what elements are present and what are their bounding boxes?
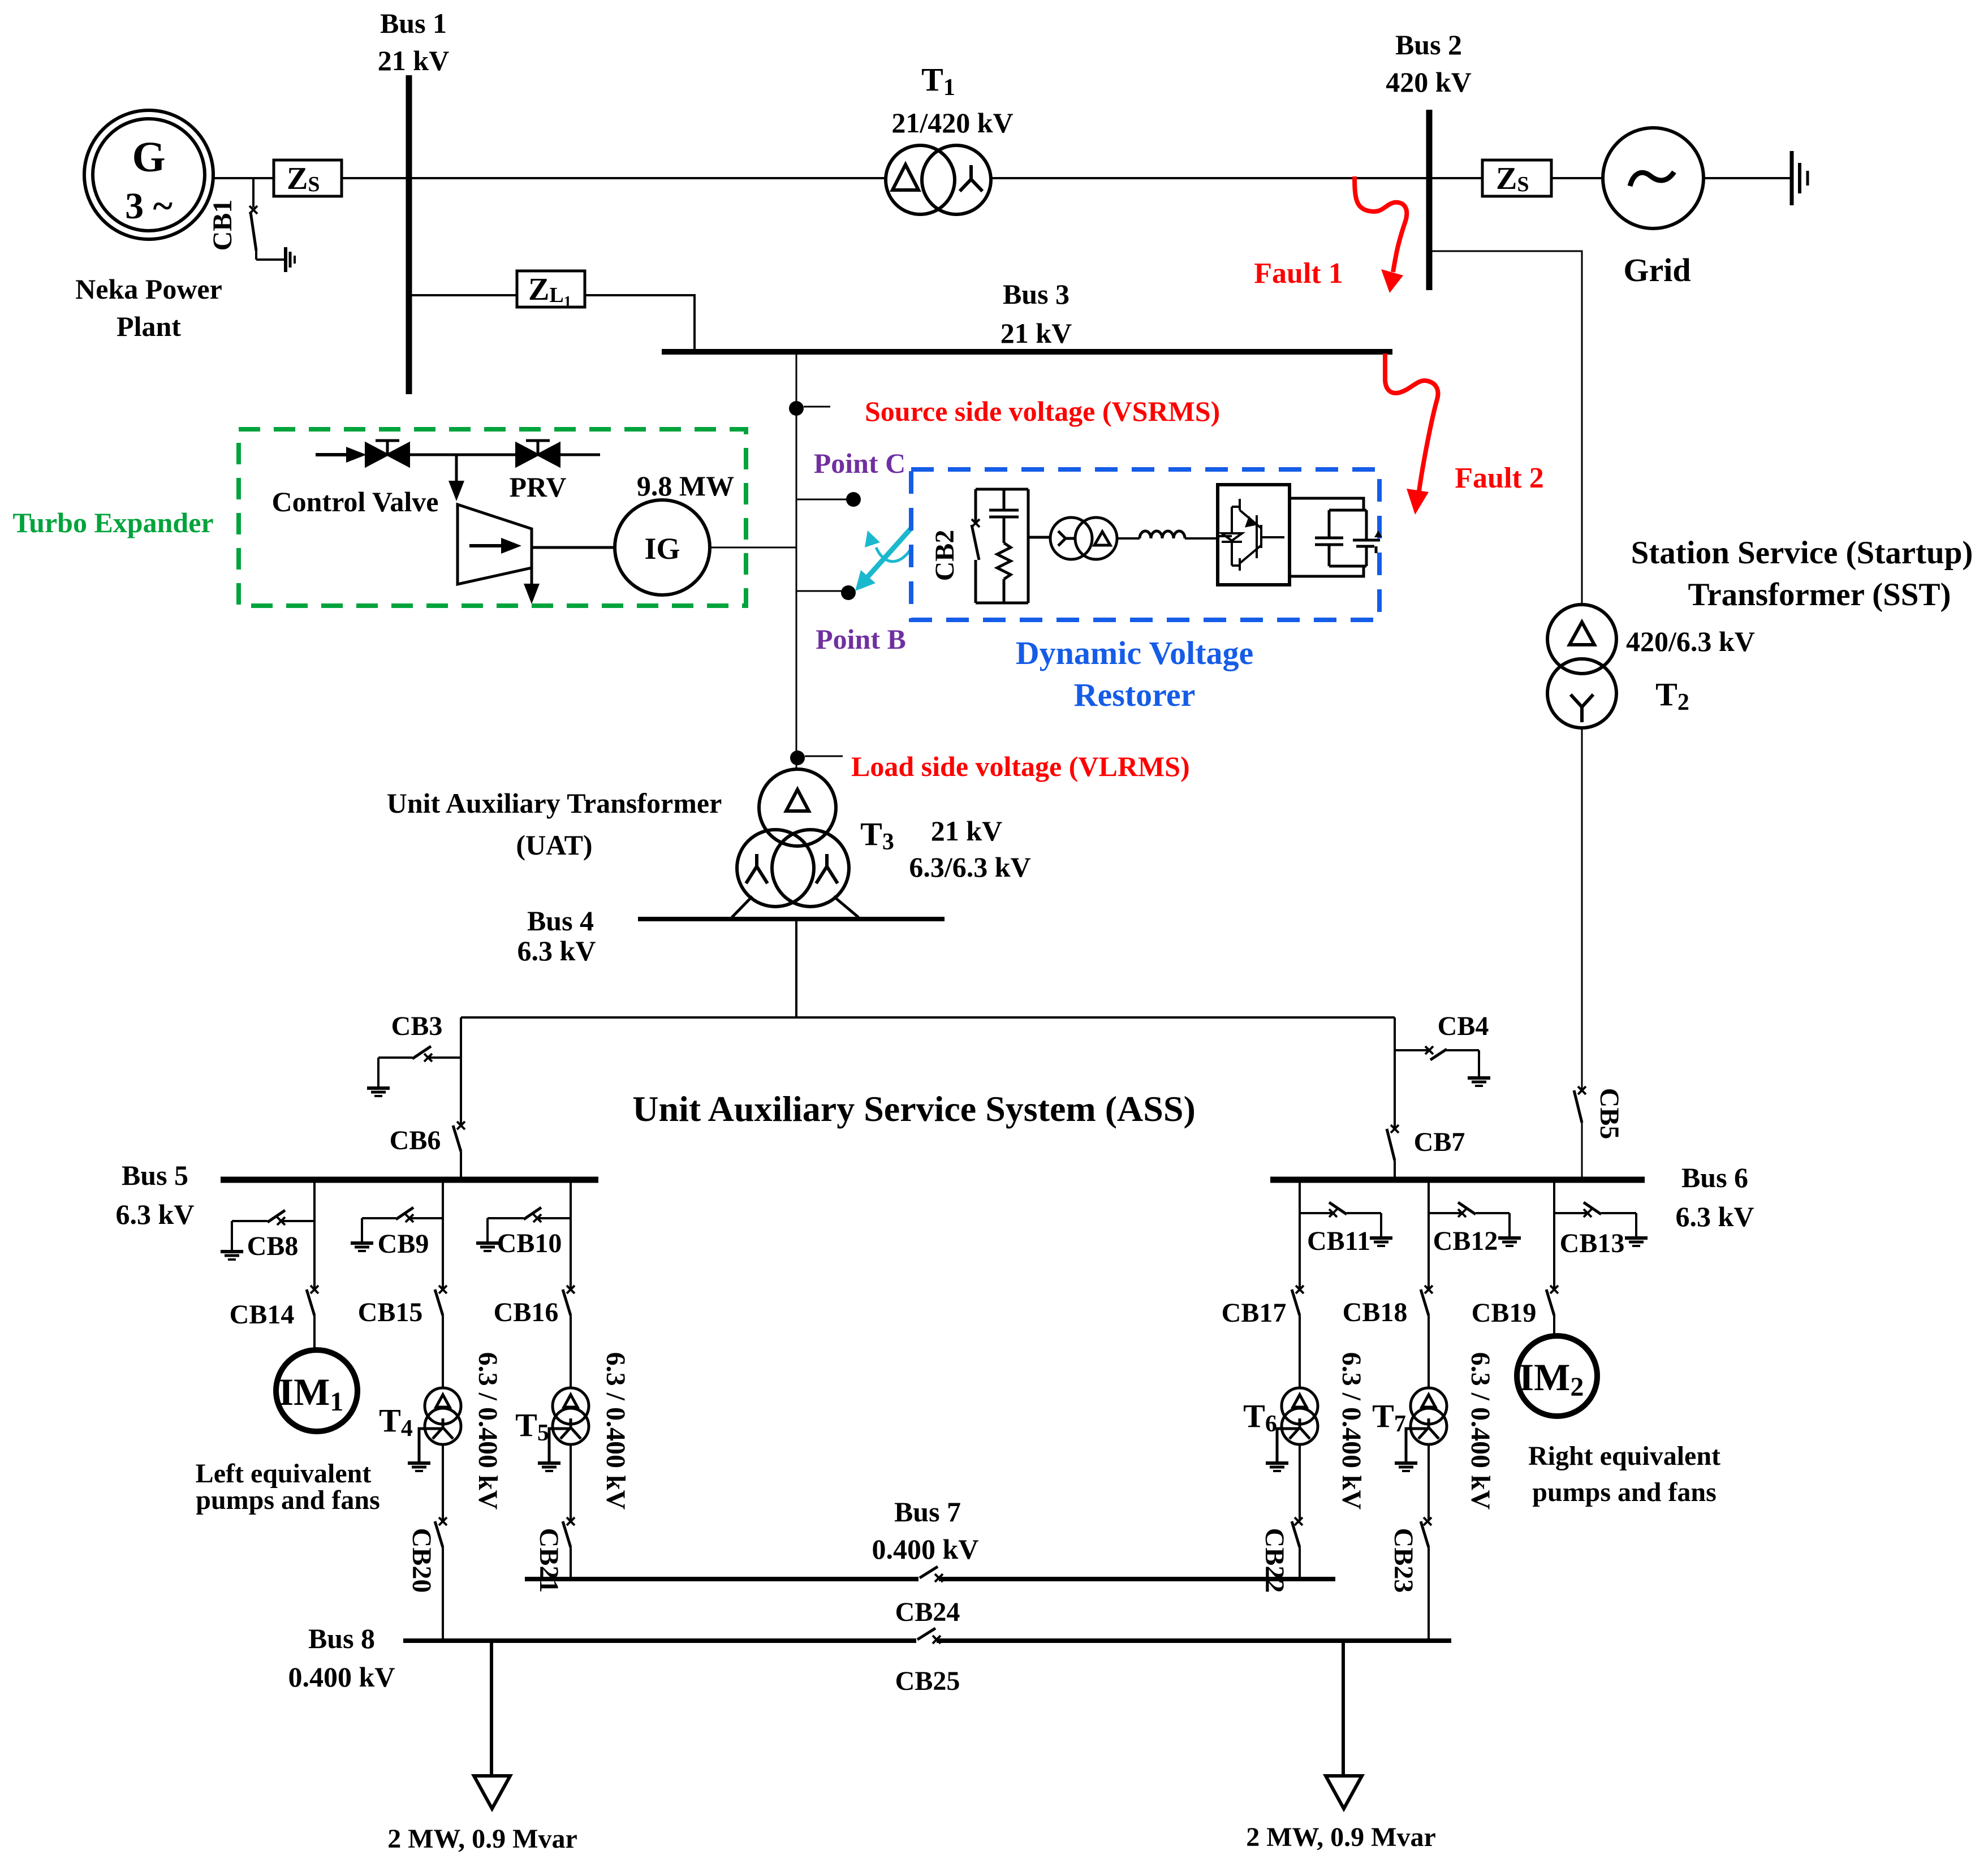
bus 2 (420 kV) (1426, 110, 1433, 290)
svg-text:G: G (132, 133, 165, 181)
bus 8 right part (937, 1638, 1451, 1643)
ground (CB8) (221, 1221, 243, 1260)
transformer T2 (SST) (1547, 605, 1616, 728)
earthing switch CB9 (362, 1207, 443, 1222)
svg-text:21 kV: 21 kV (378, 45, 449, 76)
svg-text:Bus 8: Bus 8 (308, 1623, 375, 1654)
breaker CB7 (1387, 1125, 1399, 1161)
induction motor IM2 (1517, 1336, 1597, 1416)
svg-text:Fault 2: Fault 2 (1455, 462, 1543, 494)
svg-text:6.3 kV: 6.3 kV (116, 1198, 195, 1230)
breaker CB14 (307, 1286, 318, 1315)
inductor (1140, 531, 1185, 538)
svg-text:CB24: CB24 (895, 1597, 960, 1627)
inflow arrow (316, 447, 366, 463)
bus 8 (0.400 kV) left part (403, 1638, 916, 1643)
ground (CB13) (1625, 1213, 1648, 1246)
svg-text:0.400 kV: 0.400 kV (872, 1533, 979, 1565)
DVR injection transformer (1050, 517, 1117, 559)
wire Zs to Bus1 to T1 (342, 177, 886, 179)
svg-text:0.400 kV: 0.400 kV (288, 1661, 395, 1693)
ground (T6 neutral) (1266, 1429, 1300, 1471)
svg-text:Load side voltage (VLRMS): Load side voltage (VLRMS) (851, 750, 1190, 782)
wire T2 down to CB5 (1581, 728, 1583, 1089)
shaft wire (532, 546, 615, 549)
ground (CB11) (1370, 1213, 1392, 1246)
wire grid to ground (1704, 177, 1792, 179)
svg-text:Plant: Plant (117, 310, 181, 342)
svg-text:CB23: CB23 (1388, 1528, 1418, 1593)
ground (CB12) (1498, 1213, 1521, 1246)
DC link wiring (1290, 498, 1364, 510)
svg-text:Bus 7: Bus 7 (894, 1496, 961, 1528)
transformer T5 (553, 1388, 589, 1444)
breaker CB15 (435, 1286, 447, 1315)
svg-text:420 kV: 420 kV (1386, 66, 1471, 98)
svg-text:CB25: CB25 (895, 1666, 960, 1696)
transformer T7 (1411, 1388, 1447, 1444)
turbine flow arrow (469, 544, 506, 547)
svg-text:CB2: CB2 (930, 530, 960, 581)
svg-text:Neka Power: Neka Power (75, 273, 222, 305)
svg-text:CB7: CB7 (1414, 1127, 1465, 1157)
transformer T4 (425, 1388, 461, 1444)
ground (CB1) (286, 247, 295, 272)
svg-text:CB22: CB22 (1260, 1528, 1290, 1593)
wire down to CB7 (1394, 1017, 1396, 1128)
svg-text:pumps and fans: pumps and fans (1532, 1477, 1717, 1507)
ground (grid) (1792, 151, 1808, 205)
svg-text:21 kV: 21 kV (931, 815, 1002, 847)
node point C (796, 499, 847, 501)
breaker CB16 (563, 1286, 575, 1315)
DVR blue dashed box (911, 469, 1379, 620)
wire down to CB6 (460, 1017, 462, 1124)
svg-text:CB11: CB11 (1307, 1226, 1370, 1256)
wire bus4 down (795, 921, 797, 1017)
wire inductor to converter (1185, 537, 1218, 540)
earthing switch CB4 (1395, 1046, 1479, 1060)
svg-text:Fault 1: Fault 1 (1254, 257, 1343, 290)
bus 5 (6.3 kV) (221, 1177, 598, 1183)
wire bus2 to T2 (1432, 251, 1582, 605)
transformer T3 (UAT) (737, 769, 849, 907)
earthing switch CB8 (232, 1210, 314, 1225)
svg-text:3 ~: 3 ~ (125, 186, 173, 227)
earthing switch CB10 (488, 1207, 571, 1222)
svg-text:420/6.3 kV: 420/6.3 kV (1626, 626, 1755, 657)
ground (T5 neutral) (538, 1429, 571, 1471)
wire ZL1 to bus 3 (585, 295, 695, 351)
bus 3 (21 kV) (662, 349, 1392, 355)
IGBT converter box (1218, 485, 1290, 585)
turbo expander green dashed box (239, 429, 746, 606)
DVR shunt branch (CB2, capacitor, resistor) (972, 489, 1050, 603)
ground (CB9) (351, 1218, 373, 1251)
wire column T6 (1299, 1180, 1301, 1288)
svg-text:Bus 5: Bus 5 (122, 1159, 188, 1191)
breaker CB5 (1574, 1086, 1586, 1123)
breaker CB1 (249, 178, 284, 260)
svg-text:CB16: CB16 (494, 1297, 559, 1327)
svg-text:21/420 kV: 21/420 kV (891, 107, 1013, 139)
svg-text:21 kV: 21 kV (1001, 317, 1072, 349)
svg-text:CB3: CB3 (391, 1011, 443, 1041)
ground (CB3) (367, 1058, 390, 1096)
svg-text:6.3 kV: 6.3 kV (518, 935, 596, 967)
svg-text:CB13: CB13 (1560, 1228, 1625, 1258)
svg-text:CB18: CB18 (1343, 1297, 1408, 1327)
breaker CB6 (453, 1122, 465, 1151)
svg-text:Unit Auxiliary Service System: Unit Auxiliary Service System (ASS) (632, 1089, 1196, 1129)
wire column IM1 (313, 1180, 316, 1288)
wire T6 down (1299, 1444, 1301, 1520)
svg-text:Point C: Point C (814, 447, 906, 479)
bus 4 (6.3 kV) (638, 917, 945, 921)
bus 7 (0.400 kV) left part (525, 1577, 918, 1581)
cyan transfer arrow (855, 528, 911, 591)
earthing switch CB3 (378, 1046, 461, 1062)
load left (2 MW, 0.9 Mvar) (474, 1643, 510, 1809)
svg-text:PRV: PRV (509, 471, 566, 503)
svg-text:Station Service (Startup): Station Service (Startup) (1631, 535, 1973, 571)
breaker CB25 (917, 1628, 941, 1644)
svg-text:CB12: CB12 (1433, 1226, 1498, 1256)
svg-text:CB20: CB20 (407, 1528, 437, 1593)
svg-text:Source side voltage (VSRMS): Source side voltage (VSRMS) (865, 395, 1220, 427)
svg-text:CB1: CB1 (208, 200, 238, 251)
svg-text:Dynamic Voltage: Dynamic Voltage (1016, 635, 1254, 671)
bus 6 (6.3 kV) (1270, 1177, 1645, 1183)
svg-text:Right equivalent: Right equivalent (1528, 1441, 1720, 1471)
wire generator to Zs (213, 177, 274, 179)
earthing switch CB11 (1300, 1202, 1381, 1217)
svg-text:CB10: CB10 (497, 1228, 562, 1258)
svg-text:Bus 6: Bus 6 (1681, 1162, 1748, 1193)
svg-text:CB14: CB14 (230, 1300, 295, 1330)
impedance Zs (generator side) (274, 160, 342, 196)
svg-text:Restorer: Restorer (1074, 676, 1196, 713)
wire T4 down (442, 1444, 444, 1520)
wire column IM2 (1553, 1180, 1555, 1288)
svg-text:2 MW, 0.9 Mvar: 2 MW, 0.9 Mvar (387, 1824, 577, 1854)
wire transformer to inductor (1117, 537, 1140, 540)
PRV valve (516, 441, 559, 466)
impedance Zs (grid side) (1429, 160, 1603, 196)
svg-text:Bus 2: Bus 2 (1395, 29, 1462, 61)
ground (CB10) (476, 1218, 499, 1251)
transformer T6 (1282, 1388, 1318, 1444)
node point B (796, 590, 842, 592)
svg-text:CB6: CB6 (390, 1125, 441, 1155)
svg-text:CB15: CB15 (358, 1297, 423, 1327)
svg-text:Bus 3: Bus 3 (1003, 278, 1070, 310)
svg-text:Transformer (SST): Transformer (SST) (1688, 577, 1951, 613)
induction generator IG (615, 500, 710, 595)
svg-text:CB21: CB21 (534, 1528, 564, 1593)
breaker CB24 (920, 1567, 943, 1582)
earthing switch CB13 (1554, 1202, 1636, 1217)
wire T7 down (1428, 1444, 1430, 1520)
wire T1 to Bus2 (991, 177, 1429, 179)
svg-text:6.3 / 0.400 kV: 6.3 / 0.400 kV (1465, 1352, 1495, 1510)
svg-text:CB17: CB17 (1222, 1298, 1287, 1328)
breaker CB19 (1546, 1286, 1558, 1315)
T3 legs (732, 896, 752, 917)
wire PRV out (559, 454, 600, 456)
impedance ZL1 (517, 271, 585, 310)
svg-text:Bus 1: Bus 1 (380, 7, 447, 39)
DC link capacitors (1315, 510, 1380, 566)
turbine (458, 504, 532, 584)
wire bus1 to ZL1 (409, 294, 517, 296)
transformer T1 (21/420 kV) (886, 145, 991, 214)
control valve (366, 441, 409, 466)
earthing switch CB12 (1429, 1202, 1510, 1217)
svg-text:(UAT): (UAT) (516, 829, 592, 861)
svg-text:CB4: CB4 (1438, 1011, 1489, 1041)
load right (2 MW, 0.9 Mvar) (1326, 1643, 1362, 1809)
svg-text:pumps and fans: pumps and fans (196, 1485, 380, 1515)
svg-text:CB19: CB19 (1472, 1298, 1537, 1328)
breaker CB18 (1421, 1286, 1433, 1315)
bus 1 (21 kV) (406, 75, 412, 394)
svg-text:6.3 / 0.400 kV: 6.3 / 0.400 kV (601, 1352, 631, 1510)
ground (T7 neutral) (1395, 1429, 1429, 1471)
ground (CB4) (1468, 1050, 1490, 1086)
ground (T4 neutral) (408, 1429, 443, 1471)
generator G (Neka Power Plant) (84, 110, 213, 239)
x marker CB2 (972, 519, 980, 527)
induction motor IM1 (276, 1350, 357, 1431)
breaker CB22 (1292, 1517, 1303, 1547)
wire column T5 (570, 1180, 572, 1288)
svg-text:Turbo Expander: Turbo Expander (12, 507, 213, 538)
grid source (1603, 128, 1704, 228)
svg-text:Grid: Grid (1623, 252, 1691, 288)
wire bus3 down to T3 (796, 355, 797, 769)
breaker CB20 (435, 1517, 447, 1547)
svg-text:Unit Auxiliary Transformer: Unit Auxiliary Transformer (387, 787, 722, 819)
breaker CB23 (1421, 1517, 1431, 1547)
svg-text:CB8: CB8 (247, 1231, 299, 1261)
bus 7 right part (939, 1577, 1335, 1581)
fault 1 arrow (1355, 176, 1407, 293)
breaker CB17 (1292, 1286, 1304, 1315)
svg-text:CB5: CB5 (1594, 1088, 1624, 1140)
svg-text:Left equivalent: Left equivalent (196, 1459, 372, 1489)
svg-text:6.3 / 0.400 kV: 6.3 / 0.400 kV (473, 1352, 503, 1510)
fault 2 arrow (1385, 353, 1438, 515)
wire IG to bus line (710, 547, 796, 549)
wire valve1 to PRV (409, 454, 516, 456)
breaker CB21 (563, 1517, 575, 1547)
svg-text:6.3 kV: 6.3 kV (1676, 1201, 1754, 1232)
svg-text:6.3 / 0.400 kV: 6.3 / 0.400 kV (1336, 1352, 1366, 1510)
svg-text:IG: IG (644, 532, 680, 566)
svg-text:2 MW, 0.9 Mvar: 2 MW, 0.9 Mvar (1246, 1822, 1436, 1852)
svg-text:Bus 4: Bus 4 (527, 905, 594, 937)
svg-text:Control Valve: Control Valve (272, 486, 439, 517)
wire into turbine (455, 455, 458, 485)
turbine exhaust arrow (531, 568, 533, 588)
svg-text:Point B: Point B (816, 623, 906, 655)
IGBT symbol (1218, 499, 1284, 571)
wire column T4 (442, 1180, 444, 1288)
wire T5 down (570, 1444, 572, 1520)
node source-side voltage (789, 401, 804, 416)
svg-text:CB9: CB9 (378, 1229, 429, 1259)
svg-text:6.3/6.3 kV: 6.3/6.3 kV (909, 851, 1030, 883)
node load-side voltage (790, 750, 805, 765)
svg-text:9.8 MW: 9.8 MW (637, 470, 734, 502)
wire column T7 (1428, 1180, 1430, 1288)
ASS feeder wire (461, 1016, 1395, 1019)
